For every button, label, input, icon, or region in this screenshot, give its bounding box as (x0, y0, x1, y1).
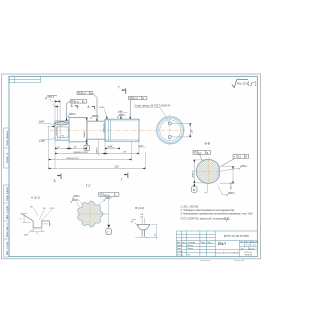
svg-text:Ra6,3: Ra6,3 (93, 116, 100, 118)
roughness Ra0.8 above left (45, 96, 57, 100)
main axis centerline (50, 129, 154, 131)
svg-text:R1: R1 (62, 135, 65, 137)
svg-text:№ докум.: № докум. (188, 241, 196, 244)
svg-text:44-0,62: 44-0,62 (229, 181, 232, 189)
roughness mark Ra6,3 upper-right (104, 198, 110, 201)
svg-text:Петров: Петров (187, 248, 193, 250)
bottom pitch dim (135, 224, 157, 239)
svg-text:Инв. № дубл.: Инв. № дубл. (6, 205, 9, 220)
svg-text:Г: Г (121, 178, 123, 182)
svg-text:Г-Г: Г-Г (86, 184, 91, 188)
svg-text:Утв.: Утв. (187, 255, 191, 257)
svg-text:Масштаб: Масштаб (251, 241, 258, 243)
svg-text:Лист: Лист (241, 248, 245, 250)
svg-text:Ra6,3: Ra6,3 (74, 196, 80, 198)
svg-text:Вал: Вал (218, 241, 227, 246)
svg-text:БГТУ гр.: БГТУ гр. (245, 252, 253, 254)
svg-text:Ra6,3: Ra6,3 (106, 198, 112, 200)
general roughness mark top right (232, 80, 256, 88)
svg-text:2.* Размеры обеспечиваются инс: 2.* Размеры обеспечиваются инструментом. (180, 209, 236, 212)
thread profile of detail В (137, 224, 150, 236)
svg-text:2 отв. центр. А4 ГОСТ 14034-74: 2 отв. центр. А4 ГОСТ 14034-74 (134, 104, 171, 107)
centerlines (195, 170, 224, 172)
dia dim left of Б-Б (193, 160, 207, 183)
svg-text:Т.контр.: Т.контр. (177, 251, 184, 253)
roughness mark Ra6,3 upper-left 1 (72, 196, 78, 199)
svg-text:1: 1 (50, 224, 51, 226)
svg-text:160h12(-1,0): 160h12(-1,0) (66, 158, 79, 160)
svg-text:Пров.: Пров. (177, 248, 182, 250)
center hole local section (hatched lens) (54, 122, 69, 125)
svg-text:Ra6,3: Ra6,3 (229, 193, 236, 195)
svg-text:МСФ-21: МСФ-21 (245, 254, 252, 257)
rotated dim right of section 3 (97, 139, 99, 156)
tolerance frame F1 (77, 91, 93, 94)
roughness Ra6,3 bottom (226, 193, 233, 196)
flat width dim right (220, 166, 235, 183)
svg-text:Ø0,05: Ø0,05 (104, 195, 111, 197)
tolerance frame F4 (193, 150, 210, 161)
svg-text:Взам. инв. №: Взам. инв. № (6, 222, 9, 237)
two center holes (168, 122, 171, 125)
svg-text:Листов: Листов (249, 248, 255, 250)
svg-text:Ø40h9: Ø40h9 (95, 147, 98, 155)
svg-text:220: 220 (114, 166, 120, 169)
shaft section 1 (left journal) (55, 121, 69, 140)
datum leader with triangle and box (108, 196, 110, 224)
svg-text:М36х2-8g: М36х2-8g (104, 122, 106, 132)
datum triangle and box below left dim (193, 183, 195, 186)
svg-text:Ra6,3: Ra6,3 (73, 200, 79, 202)
svg-text:А (5:1): А (5:1) (31, 195, 40, 199)
svg-text:Подп.: Подп. (201, 242, 206, 244)
left depth dim (22, 213, 30, 222)
leader from circle to datum line (102, 213, 109, 215)
svg-text:Перв. примен.: Перв. примен. (7, 130, 9, 146)
svg-text:Инв. № подл.: Инв. № подл. (6, 240, 9, 255)
svg-text:1х45°: 1х45° (39, 140, 45, 143)
svg-text:Масса: Масса (245, 241, 250, 243)
svg-text:Ø40h9(-0,062): Ø40h9(-0,062) (73, 151, 88, 154)
svg-text:Дата: Дата (207, 242, 211, 244)
svg-text:Ø48k6: Ø48k6 (83, 131, 86, 139)
svg-text:Ra6,3: Ra6,3 (120, 115, 127, 117)
centerlines of section Г-Г (76, 213, 106, 215)
groove profile of detail А (21, 213, 50, 228)
sheet outer edge (2, 74, 261, 259)
svg-text:Ra0,8: Ra0,8 (48, 96, 55, 98)
shaft section 2 (large) (69, 118, 87, 142)
tolerance frame F5 (222, 154, 249, 166)
svg-text:Справ. №: Справ. № (6, 152, 9, 163)
svg-text:Формат A3: Формат A3 (234, 259, 245, 262)
svg-text:Б: Б (193, 188, 195, 192)
svg-text:Лит.: Лит. (240, 241, 244, 243)
circle with flat (hatched), section Б-Б body (196, 159, 219, 183)
left roughness leader (131, 219, 136, 222)
left margin column boxes (4, 128, 9, 257)
roughness mark Ra6,3 upper-left 2 (71, 200, 77, 203)
svg-text:Подп. и дата: Подп. и дата (7, 187, 9, 201)
shaft section 3 (87, 121, 105, 139)
dim 28 (172, 124, 192, 137)
svg-text:1: 1 (20, 218, 21, 220)
tolerance frame F3 (129, 96, 147, 99)
svg-text:Г: Г (118, 86, 120, 90)
svg-text:3. Неуказанные предельные откл: 3. Неуказанные предельные отклонения раз… (181, 213, 254, 216)
svg-text:Сталь 45 ГОСТ 1050-88: Сталь 45 ГОСТ 1050-88 (215, 252, 239, 255)
svg-text:Ra1,6: Ra1,6 (70, 114, 77, 116)
svg-text:Лист: Лист (182, 242, 186, 244)
vertical dia dimension in section 2 with datum (86, 118, 88, 142)
small dim below circle (206, 184, 208, 194)
svg-text:1х45°: 1х45° (99, 106, 105, 109)
svg-text:Ra6,3: Ra6,3 (241, 166, 248, 168)
svg-text:В (4:1): В (4:1) (135, 206, 144, 210)
inner drawing frame (9, 76, 257, 256)
svg-text:ГОСТ 25347-82, валов h14, оста: ГОСТ 25347-82, валов h14, остальных ± (181, 217, 229, 220)
svg-text:Ø48-0,1: Ø48-0,1 (191, 169, 194, 179)
shaft section 4 (threaded) (105, 119, 139, 141)
roughness marks above sections (67, 114, 74, 117)
svg-text:Н.контр.: Н.контр. (177, 255, 184, 257)
bottom width dim (31, 229, 45, 232)
svg-text:Иванов: Иванов (187, 245, 193, 247)
svg-text:45°: 45° (30, 206, 33, 209)
tolerance frame F6 (99, 193, 119, 197)
top-left accompanying table (9, 76, 41, 83)
svg-text:БГТУ 01.05.07.005: БГТУ 01.05.07.005 (224, 234, 249, 238)
svg-text:1. 263...302 НВ.: 1. 263...302 НВ. (181, 205, 199, 208)
svg-text:Разраб.: Разраб. (177, 245, 184, 247)
leaders from roughness to circle (78, 199, 84, 205)
svg-text:Б-Б: Б-Б (205, 142, 210, 146)
svg-text:Копировал: Копировал (200, 260, 211, 262)
svg-text:Ra 12,5: Ra 12,5 (237, 82, 248, 86)
roughness Ra6,3 right (239, 166, 246, 169)
tolerance frame F2 (70, 100, 87, 103)
splined circle (section Г-Г) (78, 201, 103, 227)
